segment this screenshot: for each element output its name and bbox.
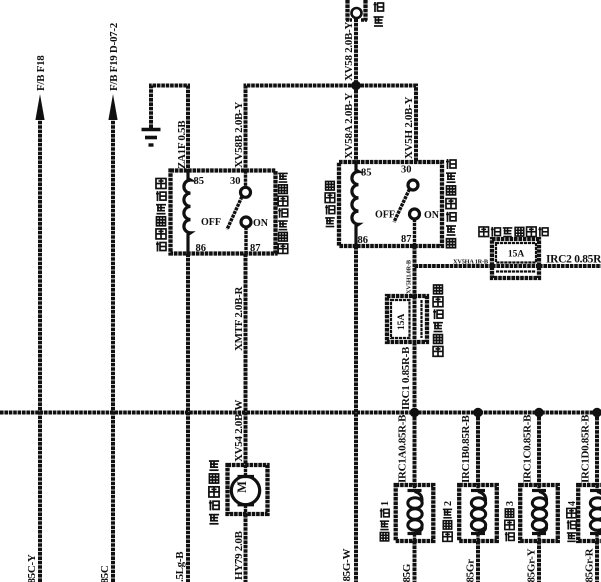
OFF label K2 — [375, 210, 395, 221]
svg-text:.5Lg-B: .5Lg-B — [174, 551, 186, 582]
svg-text:1: 1 — [380, 501, 391, 506]
svg-text:XV5HA 1R-B: XV5HA 1R-B — [453, 259, 489, 266]
node bus-INJ3 — [534, 408, 543, 417]
svg-text:.85Gr-Y: .85Gr-Y — [526, 548, 538, 582]
wire IRC1 0.85R-B (fuse F1 to injector bus) — [400, 342, 415, 413]
wire IRC1B0.85R-B (bus to injector 2) — [460, 413, 478, 486]
node junction XV58 — [351, 81, 360, 90]
OFF label K1 — [201, 217, 221, 228]
svg-text:ZA1F 0.5B: ZA1F 0.5B — [176, 120, 188, 169]
svg-text:.85Gr-R: .85Gr-R — [584, 547, 596, 582]
svg-text:.85Gr: .85Gr — [465, 559, 477, 582]
svg-text:F/B F18: F/B F18 — [35, 55, 47, 91]
label 喷油嘴4 (injector 4) — [567, 501, 578, 541]
relay K2 主继电器 main relay — [339, 162, 442, 246]
label 机舱 (harness name, cut at top) — [374, 2, 384, 26]
svg-text:.85C: .85C — [99, 565, 111, 582]
svg-text:IRC1D0.85R-B: IRC1D0.85R-B — [580, 414, 592, 483]
svg-text:XV58B 2.0B-Y: XV58B 2.0B-Y — [233, 102, 245, 168]
injector 1 喷油嘴1 — [396, 485, 434, 541]
wire 0.85G-W (K2 pin 86 down) — [341, 246, 356, 582]
svg-text:86: 86 — [196, 243, 207, 254]
svg-text:87: 87 — [401, 234, 412, 245]
svg-text:4: 4 — [567, 501, 578, 506]
injector 4 喷油嘴4 — [578, 485, 601, 541]
wire XV5HA 1R-B (tee to fuse F2) — [415, 259, 493, 267]
wire XV58 2.0B-Y (connector to node) — [343, 19, 356, 86]
svg-text:.85C-Y: .85C-Y — [26, 554, 38, 582]
wire XV58B 2.0B-Y (node to K1 pin 30) — [233, 86, 356, 171]
ON label K2 — [424, 210, 440, 221]
svg-text:XV5H 2.0B-Y: XV5H 2.0B-Y — [403, 97, 415, 159]
wire ZA1F 0.5B (ground to relay K1 pin 85) — [151, 86, 188, 171]
pin 30 K2 — [401, 165, 412, 176]
pin 85 K2 — [361, 168, 372, 179]
svg-text:OFF: OFF — [201, 217, 221, 228]
svg-text:F/B F19 D-07-2: F/B F19 D-07-2 — [108, 22, 120, 91]
pin 87 K1 — [250, 243, 261, 254]
svg-text:XV5H1.0R-B: XV5H1.0R-B — [406, 259, 413, 294]
wire XV5H 1.0R-B (K2 pin 87 to fuse tee) — [406, 246, 415, 296]
svg-text:ON: ON — [424, 210, 440, 221]
switch contacts K2 (pins 30-87, OFF position) — [394, 180, 420, 246]
wire IRC1C0.85R-B (bus to injector 3) — [522, 413, 540, 486]
svg-text:2: 2 — [443, 501, 454, 506]
wire F/B F19 0.85C — [99, 22, 120, 582]
svg-text:15A: 15A — [397, 314, 407, 331]
ON label K1 — [253, 218, 269, 229]
svg-text:85: 85 — [194, 176, 205, 187]
svg-text:XV54 2.0B-W: XV54 2.0B-W — [233, 400, 245, 462]
svg-text:85: 85 — [361, 168, 372, 179]
node bus-INJ4 — [592, 408, 601, 417]
label 喷油嘴2 (injector 2) — [443, 501, 454, 541]
svg-text:IRC1B0.85R-B: IRC1B0.85R-B — [460, 414, 472, 483]
node bus-INJ2 — [473, 408, 482, 417]
pin 85 K1 — [194, 176, 205, 187]
svg-text:30: 30 — [401, 165, 412, 176]
wire .85Gr (injector 2 down) — [465, 541, 479, 582]
svg-text:30: 30 — [230, 176, 241, 187]
svg-text:OFF: OFF — [375, 210, 395, 221]
svg-text:IRC2 0.85R-B: IRC2 0.85R-B — [546, 254, 601, 266]
injector 2 喷油嘴2 — [459, 485, 497, 541]
pin 86 K1 — [196, 243, 207, 254]
label 发动机控制线束 (engine control harness, right of K1) — [278, 173, 288, 253]
wire XV5H 2.0B-Y (node to K2 pin 30) — [356, 86, 416, 163]
svg-text:3: 3 — [505, 501, 516, 506]
coil K1 (pins 85-86) — [184, 171, 191, 254]
label 发动机控制线束 (engine control harness, right of K2) — [446, 159, 456, 248]
label 燃油泵组件 (fuel pump assembly) — [209, 461, 219, 524]
pin 30 K1 — [230, 176, 241, 187]
inline connector (to engine bay harness) — [346, 0, 367, 21]
label 机舱保险丝盒 (engine bay fuse box, vertical) — [433, 285, 443, 356]
svg-text:87: 87 — [250, 243, 261, 254]
wire .85G (injector 1 down) — [401, 541, 415, 582]
wire .85Gr-R (injector 4 down) — [584, 541, 598, 582]
wire IRC1D0.85R-B (bus to injector 4) — [580, 413, 598, 486]
svg-text:XMTF 2.0B-R: XMTF 2.0B-R — [233, 286, 245, 351]
ground — [142, 130, 161, 146]
wire HY79 2.0B (pump to ground, below) — [233, 514, 246, 582]
svg-text:.85G: .85G — [401, 563, 413, 582]
wire injector feed bus IRC1 (full width) — [0, 411, 601, 415]
pin 86 K2 — [358, 235, 369, 246]
svg-text:.85G-W: .85G-W — [341, 549, 353, 582]
wire XV58A 2.0B-Y (node to K2 pin 85) — [343, 86, 356, 163]
svg-text:15A: 15A — [508, 250, 525, 260]
wire .85Gr-Y (injector 3 down) — [526, 541, 540, 582]
label 机舱保险丝盒 (engine bay fuse box, horizontal) — [479, 227, 548, 237]
relay K1 燃油泵继电器 fuel pump relay — [171, 171, 276, 254]
wire IRC1A0.85R-B (bus to injector 1) — [397, 413, 415, 486]
wire F/B F18 0.85C-Y — [26, 55, 47, 582]
svg-text:IRC1 0.85R-B: IRC1 0.85R-B — [400, 346, 412, 410]
node bus-F1 — [410, 408, 419, 417]
svg-text:IRC1C0.85R-B: IRC1C0.85R-B — [522, 414, 534, 483]
wire 0.5Lg-B (K1 pin 86 down) — [174, 254, 188, 582]
svg-text:ON: ON — [253, 218, 269, 229]
fuse F2 15A (engine bay fuse box) — [492, 239, 539, 278]
injector 3 喷油嘴3 — [520, 485, 558, 541]
coil K2 (pins 85-86) — [352, 162, 359, 246]
fuse F1 15A (engine bay fuse box) — [387, 296, 427, 342]
label 喷油嘴3 (injector 3) — [505, 501, 516, 541]
switch contacts K1 (pins 30-87, OFF position) — [227, 171, 251, 254]
label 喷油嘴1 (injector 1) — [380, 501, 391, 541]
svg-text:XV58A 2.0B-Y: XV58A 2.0B-Y — [343, 93, 355, 159]
svg-text:HY79 2.0B: HY79 2.0B — [233, 530, 245, 580]
svg-text:IRC1A0.85R-B: IRC1A0.85R-B — [397, 414, 409, 483]
svg-text:M: M — [235, 481, 249, 493]
svg-text:XV58 2.0B-Y: XV58 2.0B-Y — [343, 22, 355, 81]
label 主继电器 (main relay) — [325, 181, 335, 226]
wire XMTF 2.0B-R / XV54 2.0B-W (K1 pin 87 to fuel pump) — [233, 254, 246, 466]
fuel pump assembly 燃油泵组件 — [228, 465, 268, 514]
label 燃油泵继电器 (fuel pump relay) — [156, 179, 166, 252]
svg-text:86: 86 — [358, 235, 369, 246]
pin 87 K2 — [401, 234, 412, 245]
wire IRC2 0.85R-B (fuse F2 out to page edge) — [539, 254, 601, 267]
